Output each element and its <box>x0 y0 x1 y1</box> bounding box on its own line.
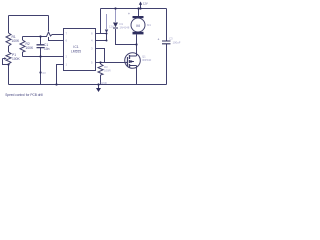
svg-text:10n: 10n <box>44 47 50 51</box>
wire right vertical C3 bottom <box>166 44 168 85</box>
wire left vertical top <box>8 16 10 34</box>
potentiometer P1 <box>3 52 12 65</box>
wire tie pins 8-4 <box>106 34 108 41</box>
ground symbol <box>98 85 100 89</box>
hop (wire jump) over x48 vertical <box>45 32 52 37</box>
wire left vertical bottom <box>8 64 10 85</box>
wire R3 top lead <box>100 63 102 65</box>
wire mosfet source to ground rail <box>136 69 138 85</box>
wire bottom ground rail <box>9 84 167 86</box>
svg-text:LM555: LM555 <box>71 49 81 53</box>
node on C1 ground drop <box>39 71 41 73</box>
wire gate line <box>96 62 126 64</box>
op-amp/timer IC1 box <box>64 29 96 71</box>
resistor R2 label 100K <box>26 42 35 50</box>
wire motor bottom to mosfet drain <box>136 35 138 53</box>
svg-text:GND: GND <box>101 81 107 85</box>
wire top-left rail <box>9 15 49 17</box>
junction dots <box>7 7 141 85</box>
wire x48 vertical upper (from top rail) <box>48 16 50 32</box>
wire D1 top lead <box>115 9 117 23</box>
transistor Q1 body arrow <box>131 60 134 63</box>
svg-text:IRF540: IRF540 <box>142 58 152 62</box>
svg-text:Speed control for PCB drill: Speed control for PCB drill <box>5 93 43 97</box>
wire R2 left vertical <box>22 37 24 57</box>
wire Vcc drop from top rail <box>100 9 102 34</box>
resistor R3 label <box>104 65 111 73</box>
svg-text:1N4148: 1N4148 <box>120 26 130 30</box>
+12V supply arrow on top rail <box>140 4 142 9</box>
capacitor C3 electrolytic <box>162 41 171 44</box>
svg-text:100K: 100K <box>12 39 21 43</box>
IC1 label LM555 <box>71 45 81 53</box>
svg-text:100K: 100K <box>26 46 35 50</box>
IC1 pin numbers <box>66 32 94 67</box>
wire C1 node down to ground rail <box>40 57 42 85</box>
wire R3 bottom lead <box>100 75 102 85</box>
capacitor C1 <box>37 45 45 48</box>
wire hop to IC pin 7 <box>52 34 64 36</box>
resistor R3 <box>98 64 103 75</box>
capacitor C1 label 10n <box>44 43 50 51</box>
wire R2/C1 top horizontal <box>23 36 46 38</box>
svg-text:12V: 12V <box>143 2 148 6</box>
resistor R1 <box>6 33 11 46</box>
transistor Q1 label <box>142 55 152 63</box>
svg-text:M: M <box>136 23 139 28</box>
capacitor C3 label <box>169 37 181 45</box>
svg-text:100K: 100K <box>12 57 21 61</box>
wire IC pin4 right <box>96 40 107 42</box>
svg-text:0V: 0V <box>43 71 47 75</box>
wire IC pin3 output <box>96 49 105 63</box>
motor M1 <box>131 16 145 34</box>
svg-text:100R: 100R <box>104 69 111 73</box>
wire R1-P1 link <box>8 46 10 52</box>
diode D1 label <box>120 22 130 30</box>
wire IC pin8 right <box>96 33 107 35</box>
svg-text:+: + <box>158 38 160 42</box>
potentiometer P1 label 100K <box>12 53 21 61</box>
potentiometer P1 wiper arrow <box>4 57 7 59</box>
wire IC pin1 to ground rail <box>57 65 64 85</box>
wire x48 vertical lower + to IC pin 6 <box>49 37 64 41</box>
wire right vertical C3 top <box>166 9 168 41</box>
transistor Q1 (MOSFET) <box>125 53 141 69</box>
resistor R1 label 100K <box>12 35 21 43</box>
svg-text:+: + <box>128 12 130 16</box>
svg-text:M1: M1 <box>147 23 151 27</box>
resistor R2 <box>20 40 25 52</box>
wire D1 bottom lead to drain node <box>116 29 137 45</box>
wire motor top lead <box>138 9 140 17</box>
wire R2/C1 bottom horizontal to IC pin 2 <box>23 56 64 58</box>
wire C1 leads <box>40 37 42 57</box>
svg-text:100uF: 100uF <box>173 41 181 45</box>
supply arrow at pins 8/4 node <box>106 14 108 29</box>
diode D1 <box>113 23 118 28</box>
wire top supply rail <box>101 8 167 10</box>
